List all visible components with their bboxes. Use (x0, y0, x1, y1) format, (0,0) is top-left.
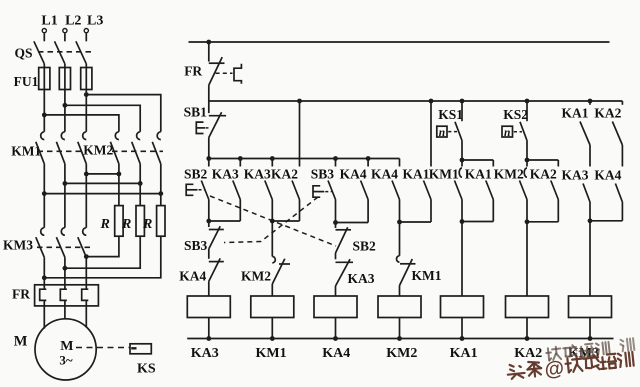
svg-text:KM2: KM2 (241, 269, 271, 284)
svg-text:SB3: SB3 (184, 238, 208, 253)
relay KA3 NC contact (336, 259, 375, 296)
node SB3-KA4 junction (333, 220, 368, 225)
label coil KM3 (568, 346, 599, 361)
contactor KM2 main contacts (83, 132, 163, 164)
svg-text:KA1: KA1 (562, 106, 589, 121)
svg-text:KM3: KM3 (3, 238, 33, 253)
svg-text:KA4: KA4 (371, 166, 398, 181)
wire resistor R2 return (63, 236, 141, 270)
button SB2 NC contact (336, 223, 377, 260)
svg-text:KA2: KA2 (514, 346, 542, 361)
contactor KM1 aux contact (429, 160, 462, 222)
label coil KA4 (322, 346, 350, 361)
relay KA3 contact a (212, 159, 240, 222)
resistor R1 (100, 174, 124, 236)
contactor KM3 contacts (3, 228, 92, 258)
node KM1-KA1 junction (460, 219, 494, 296)
start button SB2 contact (184, 159, 209, 222)
svg-text:KA3: KA3 (562, 167, 589, 182)
node KA4-KA1 junction (397, 220, 431, 225)
relay KA4 NC contact (179, 258, 224, 296)
coil KM1 (251, 296, 294, 341)
svg-text:KA4: KA4 (340, 166, 367, 181)
start button SB3 contact (311, 159, 336, 223)
svg-text:L1: L1 (41, 14, 57, 29)
relay KA1 contact a (403, 99, 434, 222)
node KS2 output (525, 158, 559, 167)
relay KA2 contact b (530, 166, 559, 222)
svg-text:L3: L3 (87, 14, 103, 29)
relay KA4 lower contact (594, 167, 622, 221)
mechanical link SB2 (210, 196, 336, 246)
control bus mid (209, 100, 623, 102)
wire to motor (44, 306, 86, 329)
wire branch L1 to KM2 (42, 113, 119, 132)
coil KA1 (441, 296, 484, 341)
svg-text:KA2: KA2 (594, 106, 621, 121)
node KM2-KA2 junction (525, 219, 559, 296)
relay KA2 upper contact (594, 101, 622, 167)
label coil KA1 (450, 346, 478, 361)
svg-text:QS: QS (15, 46, 33, 61)
contactor KM2 NC interlock (241, 221, 290, 296)
node bus top junction (206, 40, 211, 45)
speed switch KS2 (502, 99, 529, 160)
relay KA4 contact b (371, 159, 400, 223)
contactor KM1 main contacts (11, 132, 86, 164)
watermark (507, 338, 636, 386)
resistor R2 (121, 183, 144, 236)
node KA3-KA2 junction (270, 219, 300, 224)
relay KA3 contact b (244, 159, 273, 222)
svg-text:R: R (100, 217, 110, 232)
coil KA2 (506, 296, 549, 341)
thermal overload relay FR heaters (12, 285, 98, 306)
svg-text:KM1: KM1 (412, 268, 442, 283)
svg-text:FR: FR (12, 287, 30, 302)
wire resistor R3 return (42, 236, 161, 280)
relay KA1 contact b (465, 166, 494, 221)
contactor KM1 NC interlock (396, 222, 441, 296)
svg-text:KA2: KA2 (530, 166, 557, 181)
wire cross-connection lower (42, 191, 163, 196)
svg-text:R: R (142, 217, 152, 232)
svg-text:R: R (121, 217, 131, 232)
wire branch L2 to KM2 (63, 103, 141, 132)
svg-text:KS2: KS2 (503, 107, 528, 122)
wire branch L3 to KM2 (84, 92, 161, 132)
wire to KM3 contacts (44, 174, 86, 228)
svg-text:KA4: KA4 (179, 269, 206, 284)
relay KA1 upper contact (562, 99, 593, 167)
stop button SB1 (184, 101, 227, 159)
svg-text:L2: L2 (65, 14, 81, 29)
wire KM3 outputs (44, 257, 86, 285)
svg-text:SB1: SB1 (184, 105, 208, 120)
wire KM1 outputs (44, 164, 86, 194)
wire KM2 outputs (119, 164, 161, 194)
svg-text:KS1: KS1 (438, 107, 463, 122)
svg-text:KA3: KA3 (348, 271, 375, 286)
wire phase L3 (85, 64, 87, 132)
svg-text:KA3: KA3 (191, 346, 219, 361)
terminal L2 (63, 14, 82, 42)
label coil KM2 (386, 346, 417, 361)
svg-text:M: M (14, 334, 28, 350)
svg-text:KA4: KA4 (322, 346, 350, 361)
wire phase L1 (43, 64, 45, 132)
svg-text:n: n (439, 127, 445, 139)
svg-text:KA1: KA1 (403, 166, 430, 181)
wire phase L2 (64, 64, 66, 132)
svg-text:SB3: SB3 (311, 166, 335, 181)
svg-text:KA3: KA3 (244, 166, 271, 181)
mechanical link SB3 (224, 197, 318, 243)
rail after SB1 (206, 156, 399, 161)
svg-text:KA4: KA4 (594, 167, 621, 182)
svg-text:@: @ (543, 357, 565, 381)
disconnect switch QS (15, 41, 94, 64)
relay KA2 contact (271, 99, 302, 221)
relay KA4 contact a (340, 159, 369, 223)
fuse FU1 (14, 68, 92, 90)
svg-text:SB2: SB2 (184, 166, 208, 181)
svg-text:KA1: KA1 (465, 166, 492, 181)
wire resistor R1 return (84, 236, 119, 259)
svg-text:n: n (504, 127, 510, 139)
svg-text:FU1: FU1 (14, 74, 39, 89)
svg-text:KA3: KA3 (212, 166, 239, 181)
resistor R3 (142, 194, 165, 237)
terminal L1 (41, 14, 57, 42)
speed sensor KS (76, 344, 156, 377)
svg-text:KA2: KA2 (271, 166, 298, 181)
thermal relay FR contact (184, 42, 241, 101)
wire cross-connection middle (63, 181, 143, 186)
svg-text:KM2: KM2 (386, 346, 417, 361)
button SB3 NC contact (184, 221, 224, 259)
label coil KA2 (514, 346, 542, 361)
svg-text:KS: KS (137, 362, 156, 377)
coil KM2 (378, 296, 421, 341)
relay KA3 lower contact (562, 167, 591, 221)
svg-text:KM1: KM1 (429, 166, 459, 181)
motor M (14, 319, 96, 380)
node KS1 output (460, 158, 494, 167)
contactor KM2 aux contact (494, 160, 527, 222)
label coil KA3 (191, 346, 219, 361)
control bus top (189, 41, 610, 43)
svg-text:KM1: KM1 (256, 346, 287, 361)
terminal L3 (84, 14, 103, 42)
svg-text:KM2: KM2 (494, 166, 524, 181)
coil KA3 (187, 296, 230, 341)
svg-text:3~: 3~ (59, 353, 73, 368)
node SB2-KA3 junction (206, 219, 240, 224)
svg-text:SB2: SB2 (353, 239, 377, 254)
label coil KM1 (256, 346, 287, 361)
wire cross-connection upper (84, 172, 121, 177)
svg-text:FR: FR (184, 64, 202, 79)
svg-text:KA1: KA1 (450, 346, 478, 361)
speed switch KS1 (437, 99, 465, 160)
control bus bottom (187, 338, 613, 340)
svg-text:KM2: KM2 (83, 143, 113, 158)
coil KA4 (314, 296, 357, 341)
coil KM3 (569, 296, 612, 341)
node KA3-KA4 junction (588, 218, 623, 296)
